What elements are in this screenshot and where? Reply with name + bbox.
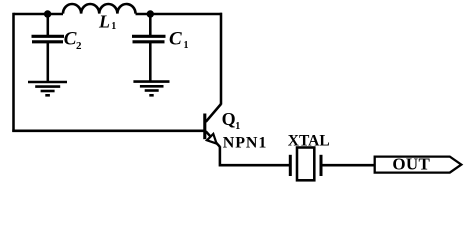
svg-text:2: 2 bbox=[76, 40, 82, 52]
svg-text:NPN1: NPN1 bbox=[223, 135, 267, 152]
transistor Q1 bbox=[205, 104, 221, 147]
inductor L1 bbox=[63, 4, 136, 14]
svg-text:1: 1 bbox=[235, 121, 240, 132]
wire left rail bbox=[12, 13, 15, 132]
node B junction dot bbox=[147, 10, 154, 17]
ground (under C1) bbox=[133, 82, 169, 96]
svg-text:OUT: OUT bbox=[392, 154, 430, 173]
wire base rail bbox=[12, 130, 204, 133]
svg-text:1: 1 bbox=[184, 40, 189, 51]
svg-text:XTAL: XTAL bbox=[288, 133, 330, 150]
crystal XTAL bbox=[290, 148, 321, 181]
OUT flag bbox=[375, 157, 462, 173]
wire collector rail bbox=[220, 13, 223, 105]
wire emitter segment bbox=[219, 146, 290, 166]
ground (under C2) bbox=[28, 82, 67, 95]
wire crystal to out bbox=[321, 164, 375, 167]
svg-text:Q: Q bbox=[222, 109, 236, 129]
capacitor C2 bbox=[32, 14, 65, 82]
svg-text:C: C bbox=[169, 29, 182, 50]
svg-text:C: C bbox=[64, 29, 77, 50]
svg-text:L: L bbox=[98, 11, 110, 31]
svg-text:1: 1 bbox=[111, 21, 116, 32]
capacitor C1 bbox=[132, 14, 166, 82]
wire top rail left segment bbox=[14, 13, 64, 16]
node A junction dot bbox=[44, 10, 51, 17]
wire top rail right segment bbox=[136, 13, 223, 16]
